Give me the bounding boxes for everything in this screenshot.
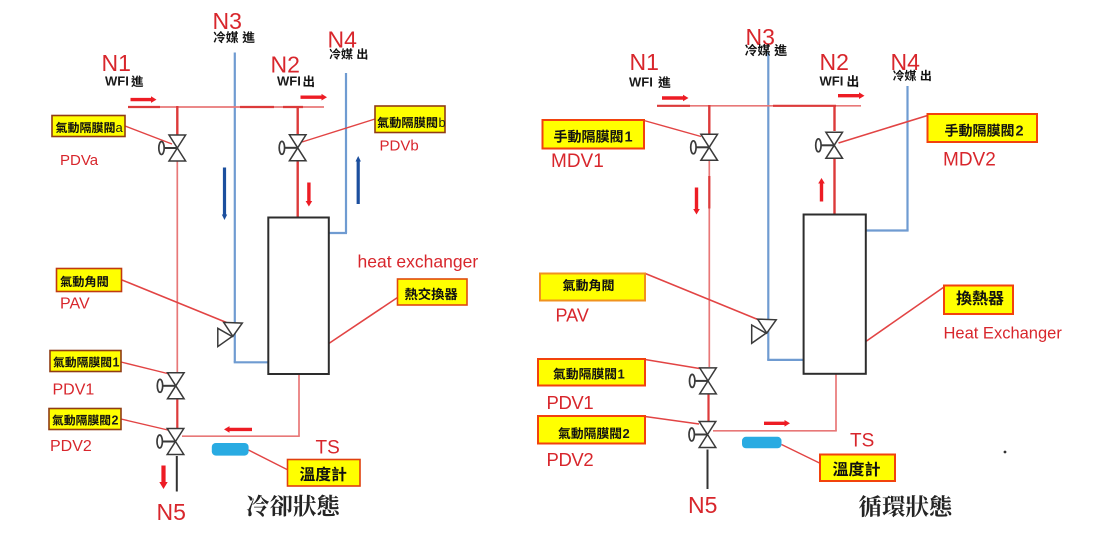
- svg-text:PDV2: PDV2: [547, 449, 594, 470]
- svg-text:2: 2: [112, 414, 119, 428]
- svg-text:PDVb: PDVb: [380, 138, 419, 155]
- svg-text:PAV: PAV: [556, 306, 589, 326]
- svg-text:PDV2: PDV2: [50, 438, 92, 455]
- svg-text:1: 1: [618, 367, 625, 382]
- svg-text:PAV: PAV: [60, 296, 90, 313]
- svg-text:b: b: [439, 115, 446, 130]
- svg-text:MDV2: MDV2: [943, 150, 996, 171]
- svg-text:N5: N5: [688, 492, 717, 518]
- svg-text:PDVa: PDVa: [60, 152, 99, 169]
- svg-text:N5: N5: [157, 499, 186, 525]
- svg-text:N3: N3: [213, 8, 242, 34]
- svg-text:TS: TS: [850, 431, 874, 452]
- svg-text:WFI: WFI: [277, 74, 301, 89]
- svg-text:N1: N1: [102, 50, 131, 76]
- svg-text:heat exchanger: heat exchanger: [358, 252, 479, 272]
- svg-text:a: a: [116, 120, 124, 135]
- svg-text:1: 1: [625, 130, 633, 146]
- svg-text:N4: N4: [328, 27, 358, 53]
- svg-text:WFI: WFI: [105, 74, 129, 89]
- svg-text:PDV1: PDV1: [53, 382, 95, 399]
- svg-text:WFI: WFI: [820, 74, 844, 89]
- svg-text:PDV1: PDV1: [547, 392, 594, 413]
- svg-text:MDV1: MDV1: [551, 151, 604, 172]
- svg-text:1: 1: [113, 356, 120, 370]
- svg-text:Heat Exchanger: Heat Exchanger: [944, 325, 1063, 343]
- svg-text:TS: TS: [316, 438, 340, 459]
- svg-text:N1: N1: [630, 49, 659, 75]
- svg-text:2: 2: [623, 426, 630, 441]
- svg-text:N2: N2: [820, 49, 849, 75]
- svg-text:WFI: WFI: [629, 75, 653, 90]
- svg-text:2: 2: [1016, 124, 1024, 140]
